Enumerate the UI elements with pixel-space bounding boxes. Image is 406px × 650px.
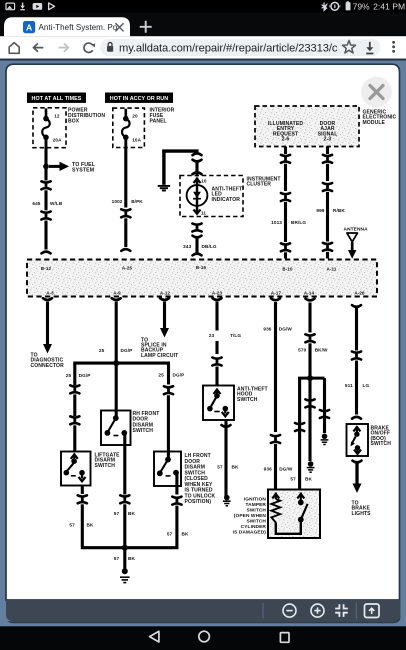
wire to band pin B-12 <box>44 221 47 250</box>
svg-text:my.alldata.com/repair/#/repair: my.alldata.com/repair/#/repair/article/2… <box>119 43 338 55</box>
wire GEM illuminated entry down <box>284 147 287 155</box>
refresh icon <box>84 43 93 52</box>
toolbar open window <box>365 604 380 618</box>
connector C1 <box>41 181 50 182</box>
power distribution box (dashed) <box>33 108 66 148</box>
svg-text:A: A <box>26 23 32 33</box>
wire bottom horizontal <box>81 546 179 549</box>
svg-text:936: 936 <box>264 466 272 471</box>
connector C21 <box>78 495 87 496</box>
RH switch contacts <box>113 415 119 421</box>
svg-text:57: 57 <box>114 556 120 561</box>
svg-text:CONNECTOR: CONNECTOR <box>31 363 65 369</box>
svg-text:57: 57 <box>217 465 223 470</box>
wire A-12 backup lamp splice arrow <box>160 298 169 300</box>
instrument cluster box (dashed) <box>180 176 243 217</box>
fuse F2 20 10A <box>125 109 128 117</box>
svg-text:25: 25 <box>158 373 164 378</box>
favicon alldata <box>23 21 35 33</box>
hood switch exit arrow <box>224 409 226 414</box>
wire left leg to ignition switch <box>298 378 301 489</box>
svg-text:BK: BK <box>232 465 239 470</box>
label box HOT IN ACCY OR RUN <box>105 93 173 103</box>
wire into instrument cluster <box>196 174 199 177</box>
wire A-23 down <box>213 298 222 300</box>
svg-text:CLUSTER: CLUSTER <box>247 182 272 188</box>
connector flare above band <box>42 252 51 254</box>
svg-text:A-25: A-25 <box>122 266 133 271</box>
svg-text:B/PK: B/PK <box>131 199 143 204</box>
svg-text:LIGHTS: LIGHTS <box>352 511 372 517</box>
svg-text:A-9: A-9 <box>113 291 121 296</box>
BOO switch exit arrow <box>356 448 358 453</box>
android status bar <box>0 0 406 13</box>
bookmark star <box>342 41 355 53</box>
brake on/off switch box <box>347 424 369 456</box>
svg-text:1013: 1013 <box>271 220 282 225</box>
resistor R1 tamper sense <box>275 493 277 500</box>
svg-text:645: 645 <box>32 201 40 206</box>
modal close button <box>361 77 392 108</box>
wire A-9 down <box>112 298 121 300</box>
wire below junction <box>44 166 47 180</box>
ground G3 <box>308 461 314 467</box>
svg-text:12: 12 <box>54 113 60 118</box>
svg-text:IGNITION: IGNITION <box>244 496 267 502</box>
menu dots <box>392 41 395 44</box>
ignition entry arrow left <box>272 494 279 498</box>
download icon <box>369 42 371 48</box>
ground G1 <box>158 185 170 187</box>
pin 10 entry arrow <box>194 179 201 183</box>
svg-text:999: 999 <box>316 208 324 213</box>
svg-text:25: 25 <box>99 348 105 353</box>
wire ground leg <box>162 150 165 185</box>
forward arrow <box>59 43 69 51</box>
pin 11 exit arrow <box>196 206 199 212</box>
connector C12 <box>215 341 218 354</box>
active tab <box>4 17 130 36</box>
svg-text:11: 11 <box>201 210 206 215</box>
hood switch contacts <box>216 389 218 396</box>
svg-text:936: 936 <box>263 326 271 331</box>
wire right leg to ground <box>323 378 326 433</box>
junction node common ground <box>122 545 128 551</box>
ignition entry arrow right <box>297 494 304 498</box>
status icon download <box>22 3 24 7</box>
svg-text:IS DAMAGED): IS DAMAGED) <box>233 530 267 536</box>
connector C19 <box>70 385 79 386</box>
connector flare above band A-25 <box>121 249 130 251</box>
svg-text:ANTENNA: ANTENNA <box>344 227 369 233</box>
svg-text:A-17: A-17 <box>271 291 282 296</box>
connector C8 <box>281 243 290 244</box>
wire hood switch to ground <box>224 420 227 496</box>
toolbar separator right <box>355 603 357 620</box>
hood switch entry arrow <box>214 390 221 394</box>
svg-text:A-12: A-12 <box>160 291 171 296</box>
svg-text:BK: BK <box>87 522 94 527</box>
wire into ignition tamper switch <box>274 444 277 490</box>
wire to fuel system arrow <box>49 165 60 168</box>
modal toolbar <box>6 600 401 622</box>
toolbar zoom in <box>311 604 324 617</box>
svg-text:POSITION): POSITION) <box>185 499 212 505</box>
connector C10 <box>323 183 332 184</box>
connector C3 <box>121 209 130 210</box>
connector C17 <box>320 410 329 411</box>
ground G2 <box>224 495 230 501</box>
chrome tab bar <box>0 13 406 37</box>
wire horizontal disarm branch <box>73 362 170 365</box>
status icon bluetooth <box>322 2 327 10</box>
connector C16 <box>305 399 314 400</box>
wire liftgate exit down <box>81 486 84 495</box>
connector C7 <box>281 193 290 194</box>
wire A-17 down <box>271 298 280 300</box>
back arrow <box>34 43 44 51</box>
svg-text:570: 570 <box>298 347 306 352</box>
status icon video <box>33 3 43 10</box>
svg-text:W/LB: W/LB <box>50 201 63 206</box>
toolbar collapse <box>335 604 339 608</box>
svg-text:INDICATOR: INDICATOR <box>212 197 241 203</box>
svg-text:SWITCH: SWITCH <box>246 507 266 513</box>
liftgate switch exit arrow <box>81 473 83 479</box>
junction node 570 split <box>307 375 313 381</box>
ignition tamper switch box <box>268 490 320 539</box>
svg-text:2-6: 2-6 <box>282 137 290 143</box>
ignition tamper switch contacts <box>298 500 304 506</box>
svg-text:BK: BK <box>182 531 189 536</box>
wire fuse F2 down <box>124 147 127 208</box>
svg-text:DG/W: DG/W <box>279 326 293 331</box>
svg-text:A-11: A-11 <box>327 267 337 272</box>
svg-text:79%: 79% <box>353 2 370 12</box>
status icon screenshot <box>6 3 15 10</box>
svg-text:A-26: A-26 <box>354 290 365 295</box>
connector C23 <box>164 386 173 387</box>
svg-text:SWITCH: SWITCH <box>246 519 266 525</box>
connector C13 <box>271 435 280 436</box>
connector C11 <box>323 243 332 244</box>
svg-text:HOT AT ALL TIMES: HOT AT ALL TIMES <box>32 96 82 102</box>
svg-text:Anti-Theft System. Po: Anti-Theft System. Po <box>39 23 118 32</box>
nav back <box>150 631 159 642</box>
interior fuse panel (dashed) <box>113 108 145 147</box>
svg-text:T/LG: T/LG <box>230 333 241 338</box>
wire resistor to switch common <box>276 520 301 534</box>
svg-text:R/BK: R/BK <box>333 208 345 213</box>
svg-text:DG/P: DG/P <box>79 373 91 378</box>
svg-text:57: 57 <box>290 476 296 481</box>
svg-text:SWITCH: SWITCH <box>237 397 258 403</box>
connector C22 <box>120 495 129 496</box>
svg-text:A-23: A-23 <box>212 290 223 295</box>
connector C18 <box>352 352 361 353</box>
chrome address bar <box>0 36 406 59</box>
svg-text:57: 57 <box>114 511 120 516</box>
svg-text:DB/LG: DB/LG <box>202 244 217 249</box>
svg-text:BOX: BOX <box>68 119 80 125</box>
svg-text:1002: 1002 <box>112 199 123 204</box>
anti-theft LED indicator <box>187 185 208 206</box>
wire into liftgate switch <box>73 425 76 452</box>
home icon <box>9 43 19 54</box>
svg-text:BK: BK <box>305 476 312 481</box>
svg-text:57: 57 <box>69 522 75 527</box>
svg-text:SWITCH: SWITCH <box>95 463 116 469</box>
url pill <box>100 39 381 56</box>
svg-text:A-14: A-14 <box>304 291 315 296</box>
BOO switch entry arrow <box>353 427 360 431</box>
nav recents <box>280 633 289 643</box>
wire LH exit down <box>175 473 178 495</box>
wire middle leg to ground <box>308 378 311 461</box>
svg-text:DG/P: DG/P <box>173 373 185 378</box>
svg-text:TAMPER: TAMPER <box>246 502 267 508</box>
RH front door disarm switch box <box>101 411 131 446</box>
svg-text:LG: LG <box>363 383 370 388</box>
junction node disarm feed <box>113 360 119 366</box>
wire junction to ground <box>123 548 126 570</box>
wire A-14 down <box>306 299 315 301</box>
svg-text:2:41 PM: 2:41 PM <box>373 2 405 12</box>
svg-text:PANEL: PANEL <box>150 118 167 124</box>
wire LH to junction <box>175 506 178 548</box>
connector C24 <box>172 497 181 498</box>
divider under address bar <box>0 59 406 61</box>
fuse F1 12 20A <box>45 108 48 117</box>
svg-text:20A: 20A <box>53 138 62 143</box>
LH switch contacts <box>165 457 171 463</box>
svg-text:10: 10 <box>201 179 207 184</box>
wire to band pin A-25 <box>124 218 127 247</box>
connector C9 <box>323 155 332 156</box>
svg-text:B-10: B-10 <box>282 267 293 272</box>
generic electronic module box (dashed) <box>255 106 359 147</box>
wire into RH front door switch <box>115 363 118 418</box>
status icon watch <box>331 2 339 10</box>
status battery <box>347 1 349 2</box>
svg-text:343: 343 <box>183 244 191 249</box>
wire segment 57 BK liftgate <box>81 504 84 546</box>
svg-text:10A: 10A <box>132 138 141 143</box>
connector C2 <box>41 212 50 213</box>
svg-text:SYSTEM: SYSTEM <box>72 168 95 174</box>
wire GEM door ajar down <box>326 147 329 155</box>
svg-text:(OPEN WHEN: (OPEN WHEN <box>234 513 267 519</box>
svg-text:BK: BK <box>128 556 135 561</box>
status icon play <box>49 3 55 10</box>
LH front door disarm switch box <box>154 452 181 487</box>
wire into LH switch <box>167 395 170 459</box>
liftgate switch contacts <box>71 458 77 464</box>
lock icon <box>108 43 112 46</box>
wire A-3 to diagnostic connector <box>43 298 52 300</box>
wire segment 645 W/LB <box>44 190 47 210</box>
svg-text:BR/LG: BR/LG <box>291 220 306 225</box>
wire segment 343 DB/LG <box>193 236 202 238</box>
connector C15 <box>295 423 304 424</box>
wire fuse F1 to fuel system junction <box>44 147 47 166</box>
svg-text:A-3: A-3 <box>46 291 54 296</box>
svg-text:HOT IN ACCY OR RUN: HOT IN ACCY OR RUN <box>110 96 168 102</box>
wire left branch down <box>73 363 76 385</box>
svg-text:23: 23 <box>209 333 215 338</box>
junction node fuel system tap <box>43 164 49 170</box>
svg-text:DG/W: DG/W <box>279 466 293 471</box>
tab close x <box>115 23 123 31</box>
android navigation bar <box>0 626 406 650</box>
wire thick horizontal to cluster <box>162 149 198 152</box>
svg-text:BK: BK <box>128 511 135 516</box>
svg-text:25: 25 <box>66 373 72 378</box>
new tab plus <box>140 21 152 33</box>
label box HOT AT ALL TIMES <box>27 93 86 103</box>
wire RH exit down <box>123 433 126 495</box>
wire right branch down <box>167 363 170 384</box>
connector C14 <box>305 334 314 335</box>
antenna symbol <box>347 233 358 242</box>
BOO switch contacts <box>354 432 359 437</box>
svg-text:57: 57 <box>167 531 173 536</box>
connector C4 <box>193 160 202 162</box>
liftgate switch entry arrow <box>71 454 78 458</box>
svg-text:DG/P: DG/P <box>121 348 133 353</box>
svg-text:511: 511 <box>345 383 353 388</box>
nav home <box>199 631 210 642</box>
wire BOO to brake lights arrow <box>353 461 362 463</box>
anti-theft hood switch box <box>203 386 234 421</box>
svg-text:SWITCH: SWITCH <box>133 428 154 434</box>
wire into hood switch <box>215 367 218 386</box>
wire horizontal 570 split <box>298 377 325 380</box>
connector C5 <box>192 224 201 225</box>
svg-text:20: 20 <box>132 113 138 118</box>
connector C20 <box>70 416 79 417</box>
wire RH to junction <box>123 504 126 547</box>
connector band (dashed) <box>27 260 377 297</box>
wire A-26 down <box>352 305 361 307</box>
wire stub down to connector <box>195 150 198 152</box>
svg-text:MODULE: MODULE <box>363 120 386 126</box>
liftgate disarm switch box <box>61 452 91 486</box>
connector C6 <box>281 155 290 156</box>
svg-text:B-16: B-16 <box>196 265 207 270</box>
toolbar zoom out <box>283 604 296 617</box>
svg-text:B-12: B-12 <box>41 266 52 271</box>
svg-text:LAMP CIRCUIT: LAMP CIRCUIT <box>141 353 179 359</box>
ground G4 <box>322 434 328 440</box>
svg-text:2-3: 2-3 <box>324 137 332 143</box>
ground G5 <box>122 568 128 574</box>
svg-text:CYLINDER: CYLINDER <box>241 524 267 530</box>
toolbar separator left <box>262 603 264 619</box>
svg-text:BK/W: BK/W <box>315 347 328 352</box>
svg-text:SWITCH: SWITCH <box>371 441 392 447</box>
